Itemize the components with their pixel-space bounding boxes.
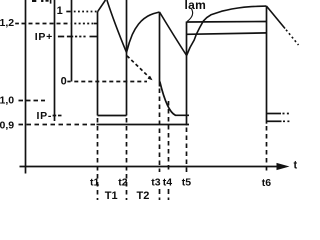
0,9 solid signal line: [97, 124, 190, 126]
t1 marker line dashed part: [97, 118, 99, 200]
t3 marker line dashed part: [159, 89, 161, 173]
rectangle band bottom line t5..t6: [187, 33, 268, 34]
svg-text:IP-: IP-: [37, 110, 53, 122]
IP axis (second vertical): [54, 0, 56, 121]
t5 marker line dashed part: [186, 128, 188, 175]
tick+dashed line level 1,2: [15, 23, 19, 25]
t1 marker line solid part: [97, 12, 99, 116]
lambda curve descent after t6: [267, 6, 286, 28]
tick level 1 (inner axis): [66, 11, 70, 13]
svg-text:t6: t6: [262, 177, 271, 189]
dashed line level 0,9: [19, 124, 97, 126]
t axis arrowhead: [277, 163, 290, 170]
t2 marker line solid part: [126, 0, 128, 116]
tick level 0 (inner axis): [67, 81, 70, 83]
lambda curve rise t5 to flat top at t6: [187, 6, 267, 55]
svg-text:1,0: 1,0: [0, 95, 14, 107]
svg-text:T1: T1: [105, 190, 118, 200]
arrowhead of extrapolation: [148, 76, 153, 81]
t4 marker line dashed: [168, 101, 170, 172]
lambda curve rising edge into cropped peak at t1: [98, 0, 106, 12]
dashed line level 1,0: [19, 100, 46, 102]
lambda curve rise t2 to peak at t3: [127, 12, 160, 53]
decay curve after t3 down to low flat level: [160, 82, 189, 116]
svg-text:0: 0: [61, 76, 67, 88]
dash-dot line level IP+: [58, 36, 73, 38]
t5 marker line solid part: [186, 22, 188, 126]
IP pulse bottom between t1,t2: [98, 115, 127, 117]
svg-text:t: t: [294, 160, 298, 172]
tick right of IP axis at IP- level: [53, 115, 57, 117]
svg-text:IP+: IP+: [35, 31, 53, 43]
t6 marker line solid part: [266, 6, 268, 124]
leader line from lam label: [187, 9, 192, 21]
svg-text:t5: t5: [182, 177, 191, 189]
svg-text:1,2: 1,2: [0, 17, 14, 29]
lambda axis (left vertical): [25, 0, 27, 174]
svg-text:t1: t1: [90, 177, 99, 189]
t2 marker line dashed part: [126, 118, 128, 200]
dashed line level 0: [74, 81, 147, 83]
t axis (horizontal with arrow): [20, 166, 280, 168]
rectangle band top line t5..t6: [187, 21, 268, 24]
svg-text:t3: t3: [151, 177, 160, 189]
stub lines right of t6 upper: [267, 113, 282, 115]
dotted line level 1: [74, 11, 98, 13]
dotted continuation of descent: [286, 30, 299, 45]
inner 0..1 axis: [71, 0, 73, 82]
svg-text:0,9: 0,9: [0, 120, 14, 132]
dashed extrapolation diagonal after t2: [127, 56, 149, 78]
lambda curve descent from cropped peak to t2: [107, 0, 127, 53]
stub lines right of t6 lower: [267, 120, 282, 122]
svg-text:lam: lam: [185, 0, 207, 12]
svg-text:T2: T2: [137, 190, 150, 200]
svg-text:t2: t2: [118, 177, 127, 189]
svg-text:1: 1: [57, 5, 63, 17]
cropped text bottoms at top edge: [32, 0, 49, 2]
t3 marker line solid part: [159, 12, 161, 87]
t6 marker line dashed part: [266, 126, 268, 172]
lambda curve steep descent t3 to t5: [160, 12, 187, 56]
svg-text:t4: t4: [163, 177, 172, 189]
